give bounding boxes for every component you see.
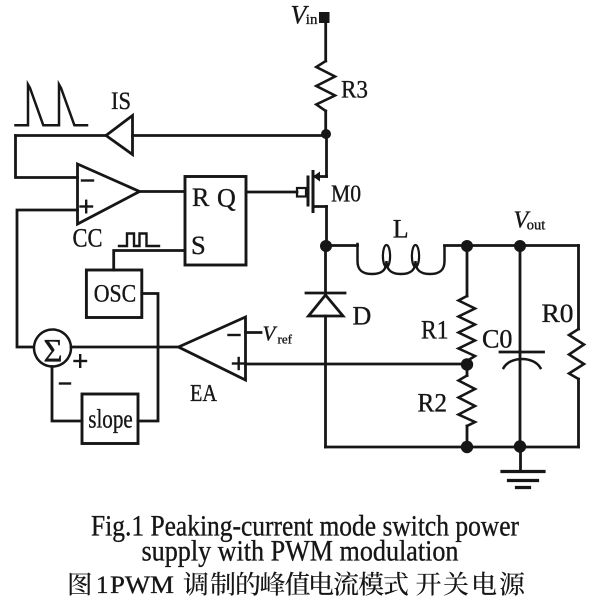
svg-text:CC: CC xyxy=(73,224,103,253)
svg-text:IS: IS xyxy=(111,88,131,115)
svg-text:L: L xyxy=(393,215,409,244)
svg-text:D: D xyxy=(353,302,372,331)
svg-text:ref: ref xyxy=(278,332,293,347)
svg-text:OSC: OSC xyxy=(94,281,137,308)
svg-text:V: V xyxy=(263,322,278,346)
svg-text:1: 1 xyxy=(96,572,109,599)
svg-text:out: out xyxy=(527,218,546,234)
svg-text:PWM: PWM xyxy=(110,572,174,599)
svg-text:M0: M0 xyxy=(331,182,361,208)
svg-text:R: R xyxy=(192,183,210,212)
svg-text:S: S xyxy=(191,230,206,260)
svg-text:C0: C0 xyxy=(482,325,513,354)
svg-text:R2: R2 xyxy=(418,389,448,418)
svg-text:Q: Q xyxy=(217,184,236,213)
svg-text:slope: slope xyxy=(88,405,133,434)
svg-text:R3: R3 xyxy=(341,77,368,104)
svg-text:in: in xyxy=(306,12,318,28)
svg-text:EA: EA xyxy=(190,381,218,407)
svg-text:Σ: Σ xyxy=(43,334,62,370)
svg-text:supply with PWM modulation: supply with PWM modulation xyxy=(142,535,459,568)
svg-text:R1: R1 xyxy=(421,316,449,345)
svg-text:R0: R0 xyxy=(542,299,574,328)
